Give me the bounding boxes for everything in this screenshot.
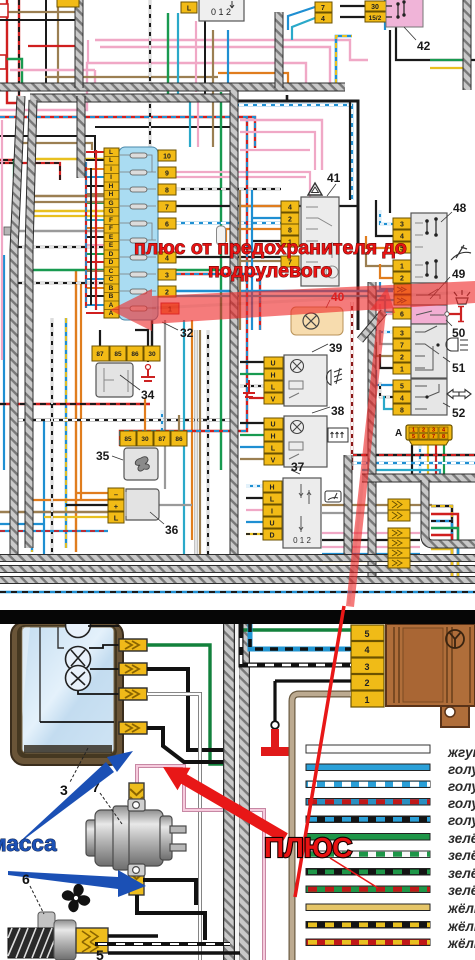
- wire brown horizontal top left: [0, 11, 79, 13]
- harness horizontal bottom run 2: [0, 565, 475, 573]
- wire white from connector 3: [147, 694, 200, 960]
- wire right elbow wire 4: [431, 528, 458, 578]
- wire pink vertical x196: [195, 21, 197, 92]
- svg-text:L: L: [114, 514, 119, 523]
- wire brown horizontal y143: [18, 143, 92, 150]
- svg-text:I: I: [110, 166, 112, 173]
- wire yellow-green stub right: [430, 59, 467, 61]
- wire black wire 34 to ground: [135, 330, 148, 362]
- headlight icon 51: [446, 338, 468, 351]
- wire black wire to pin30: [340, 5, 365, 7]
- wire black to 41-1: [252, 240, 281, 242]
- svg-text:3: 3: [165, 273, 169, 280]
- harness horizontal bottom run 3: [0, 576, 475, 584]
- legend row 4 red-blue: [306, 799, 430, 806]
- wire gray y231 with connector: [4, 227, 104, 235]
- wire yellow pair y216: [33, 215, 104, 217]
- wire fuse pin stub 10: [86, 227, 104, 229]
- svg-text:39: 39: [329, 341, 343, 355]
- svg-text:34: 34: [141, 388, 155, 402]
- svg-text:4: 4: [400, 396, 404, 403]
- wire green horizontal to 38H: [240, 434, 264, 436]
- svg-text:0 1 2: 0 1 2: [293, 536, 311, 545]
- wire red-blue vertical x247: [120, 117, 247, 446]
- label 35: [96, 449, 123, 463]
- svg-text:зелёный: зелёный: [448, 848, 475, 863]
- wire teal vertical x184 mid: [183, 320, 185, 556]
- wire black elbow y95 right: [286, 95, 289, 101]
- wire pink pair from fuse 9: [176, 172, 310, 197]
- wire black vertical x390 top: [389, 30, 391, 213]
- fuse box 32 body: [119, 147, 158, 320]
- label 38: [312, 404, 345, 418]
- headlamp 3 glass: [22, 627, 114, 753]
- light switch 51 body: [411, 324, 447, 378]
- relay block connector brown: [386, 624, 475, 727]
- wire blue vertical x228: [227, 30, 229, 90]
- light switch 51 pins 3 7 2 1: [393, 327, 411, 374]
- legend row 10 solid yellow: [306, 904, 430, 911]
- wire orange elbow 41-8: [226, 229, 281, 242]
- switch 39 pins U H L V: [264, 357, 283, 404]
- label 34: [120, 375, 155, 402]
- wire brown vertical x200 mid: [199, 330, 201, 556]
- wire teal to 52-8: [384, 396, 393, 409]
- wire fuse pin stub 15: [86, 270, 104, 272]
- svg-text:9: 9: [165, 171, 169, 178]
- horn icon red: [449, 307, 464, 322]
- wire pink to 37I: [246, 509, 263, 511]
- svg-text:85: 85: [124, 436, 132, 443]
- svg-text:A: A: [395, 428, 402, 439]
- wire fuse pin stub 6: [86, 193, 104, 195]
- svg-text:2: 2: [422, 428, 425, 434]
- svg-text:E: E: [109, 234, 114, 241]
- label 40: [326, 290, 345, 308]
- harness bundle horizontal main: [0, 83, 345, 92]
- svg-text:7: 7: [432, 434, 435, 440]
- wire black to pin 2 with ground drop: [275, 681, 351, 721]
- headlamp 3 outer frame: [11, 622, 123, 765]
- svg-text:плюс от предохранителя до: плюс от предохранителя до: [134, 237, 407, 259]
- wire blue vertical x44: [43, 420, 45, 556]
- wire black horizontal to 39U: [240, 361, 264, 363]
- label 42: [404, 27, 431, 53]
- wire wire A down4: [435, 445, 437, 478]
- svg-text:голубой: голубой: [448, 813, 475, 828]
- label 52: [443, 403, 466, 420]
- relay 35 body with fan icon: [124, 448, 158, 480]
- inline fuse capsule on green wire: [217, 226, 226, 245]
- svg-text:86: 86: [175, 436, 183, 443]
- relay 42 pins 30 15/2: [365, 1, 386, 22]
- legend labels: [447, 745, 475, 951]
- harness bottom vertical 2: [238, 617, 250, 960]
- wire black dashed to 39L: [240, 385, 264, 387]
- svg-text:D: D: [109, 251, 114, 258]
- white wire between harnesses: [235, 617, 239, 960]
- washer switch 49 pins: [394, 284, 411, 305]
- svg-text:I: I: [271, 509, 273, 516]
- wire red-blue dashed vertical x86: [85, 162, 87, 308]
- fog lamp icon 39: [326, 368, 342, 385]
- wire pink horizontal B: [10, 70, 95, 84]
- svg-text:86: 86: [131, 351, 139, 358]
- label 32: [162, 322, 194, 340]
- wire fuse pin stub 13: [86, 253, 104, 255]
- red callout arrow to fuse pin 1 (wide translucent): [110, 281, 475, 331]
- wire dark-red dashed vertical x352: [351, 302, 353, 470]
- lamp box 40: [291, 307, 343, 335]
- connector A: [395, 425, 452, 445]
- svg-text:C: C: [109, 268, 114, 275]
- wire blue pair from fuse 2b: [176, 296, 393, 312]
- heater icon 38: [328, 428, 348, 442]
- wire red dashed horizontal y163: [0, 163, 60, 180]
- legend row 9 red-green: [306, 886, 430, 893]
- wire blue dashed to 37H: [246, 485, 263, 487]
- wire black dashed vertical x208 mid: [207, 330, 209, 556]
- wire black wire 42 down: [396, 27, 475, 60]
- wire green top-left corner: [0, 59, 22, 84]
- headlamp connector 3: [119, 688, 147, 700]
- harness vertical right x425: [425, 480, 475, 544]
- svg-text:зелёный: зелёный: [448, 831, 475, 846]
- fuse box 32 internal links: [119, 155, 156, 308]
- wiper motor 7 yellow strap: [129, 783, 144, 895]
- red callout arrow up to column switch (wide translucent): [346, 288, 395, 607]
- small yellow stub top edge: [57, 0, 79, 7]
- wire black dash to 52-4: [380, 382, 393, 397]
- label 41: [327, 171, 341, 196]
- wire fuse pin stub 18: [86, 295, 104, 297]
- wire black dashed horizontal y283: [13, 282, 104, 284]
- svg-text:I: I: [110, 174, 112, 181]
- wire red horizontal to 39V: [249, 397, 264, 399]
- svg-text:5: 5: [96, 947, 104, 960]
- wire fuse pin stub 14: [86, 261, 104, 263]
- wire green vertical x221 low: [220, 330, 222, 470]
- legend row 3 white-blue: [306, 781, 430, 788]
- fan symbol 6: [58, 880, 95, 917]
- label 48: [441, 201, 467, 222]
- switch 39 body: [284, 355, 327, 406]
- svg-text:–: –: [114, 490, 118, 499]
- label 36: [150, 512, 179, 537]
- hazard switch 41 body: [301, 197, 339, 286]
- wire blue vertical far left: [3, 255, 5, 470]
- legend row 11 black-yellow: [306, 922, 430, 929]
- wire fuse pin stub 19: [86, 304, 104, 306]
- wire gray vertical x165 mid: [164, 320, 166, 489]
- harness vertical mid-right: [368, 282, 377, 576]
- wire pink horizontal pair A: [0, 63, 306, 110]
- svg-text:H: H: [270, 373, 275, 380]
- hazard triangle icon 41: [308, 183, 322, 195]
- harness diagonal crossing: [360, 312, 384, 340]
- svg-text:38: 38: [331, 404, 345, 418]
- harness horizontal right y478: [362, 474, 475, 483]
- svg-text:B: B: [109, 293, 114, 300]
- svg-text:L: L: [109, 157, 113, 164]
- wire orange vertical x81: [80, 282, 82, 500]
- svg-text:15/2: 15/2: [369, 15, 382, 22]
- wire pink horizontal C: [95, 40, 368, 60]
- wire black vertical x205: [204, 21, 206, 98]
- svg-text:E: E: [109, 242, 114, 249]
- legend row 8 black-green: [306, 869, 430, 876]
- label 3: [60, 748, 88, 798]
- wire pink from fuse 9b: [176, 176, 306, 178]
- wire yellow through connector 7: [322, 560, 420, 562]
- svg-text:H: H: [109, 191, 114, 198]
- svg-text:5: 5: [400, 384, 404, 391]
- wire green vertical x221: [220, 92, 222, 330]
- wire blue horizontal y524: [0, 523, 44, 525]
- bottom right pin 2: [351, 675, 384, 691]
- wire black to 37L: [246, 497, 263, 499]
- wire pink through connector 3: [322, 532, 420, 534]
- wire fuse pin stub 5: [86, 185, 104, 187]
- wire pink horizontal D: [100, 47, 330, 84]
- svg-text:35: 35: [96, 449, 110, 463]
- wire brown wire to 35-86: [178, 415, 180, 431]
- label 37: [291, 460, 305, 474]
- wire gray through connector 2: [322, 478, 425, 513]
- wire wire A down5: [443, 445, 445, 478]
- washer pump 5 assembly: [8, 912, 108, 960]
- wire fuse pin stub 2: [86, 159, 104, 161]
- svg-text:0 1 2: 0 1 2: [211, 7, 231, 17]
- svg-text:4: 4: [364, 645, 369, 655]
- svg-text:3: 3: [364, 662, 369, 672]
- svg-text:V: V: [271, 458, 276, 465]
- hazard switch 41 pins 4 2 8 1 7: [281, 201, 299, 267]
- relay 34 pins 87 85 86 30: [92, 346, 160, 361]
- legend row 1 harness: [306, 745, 430, 753]
- svg-text:3: 3: [60, 782, 68, 798]
- wiper motor 7 body: [86, 799, 186, 876]
- wire orange to 48-5: [366, 236, 393, 248]
- label 50: [446, 320, 466, 340]
- bottom right pin 5: [351, 625, 384, 641]
- turn switch 52 pins 5 4 8: [393, 380, 411, 415]
- bottom right pin 1: [351, 691, 384, 707]
- svg-text:2: 2: [364, 678, 369, 688]
- svg-text:L: L: [271, 446, 276, 453]
- svg-text:D: D: [269, 533, 274, 540]
- fuse box 32 left pin column: [104, 148, 119, 318]
- wire black-white dash from fuse 8: [176, 188, 281, 190]
- wire black from fuse 7: [176, 205, 358, 207]
- turn arrows icon 52: [447, 390, 471, 399]
- wire blue through connector 6: [322, 553, 420, 555]
- wire black vertical x91: [90, 168, 92, 305]
- wire blue-red dashed y531: [0, 530, 108, 532]
- svg-text:30: 30: [148, 351, 156, 358]
- label 39: [312, 341, 343, 355]
- wire orange to 48-2: [380, 264, 393, 278]
- svg-text:жёлтый: жёлтый: [447, 901, 475, 916]
- ground terminal circle: [271, 721, 279, 729]
- svg-text:A: A: [109, 302, 114, 309]
- wire blue-yellow dashed vertical x66: [65, 318, 67, 548]
- svg-text:+: +: [114, 502, 119, 511]
- inline connector stack lower: [388, 528, 410, 568]
- wire brown through connector 1: [322, 504, 432, 506]
- wire black horizontal y127: [95, 126, 230, 128]
- horn switch 50 body pink: [411, 305, 449, 324]
- svg-text:1: 1: [412, 428, 415, 434]
- headlamp connector 2: [119, 663, 147, 675]
- wire black-red dashed right y455: [352, 454, 475, 456]
- wire red-black dashed vertical left: [0, 0, 19, 160]
- wire red-black dashed horizontal y404: [0, 403, 150, 406]
- wire blue to 41-2: [252, 217, 281, 219]
- wire brown horizontal to 38V: [240, 458, 264, 460]
- wire black dashed horizontal y247: [13, 246, 104, 248]
- legend row 7 white-green: [306, 851, 430, 858]
- wire right elbow wire 2: [431, 514, 458, 578]
- svg-text:D: D: [109, 259, 114, 266]
- motor 36 body: [126, 489, 159, 520]
- wire yellow pair y211: [33, 210, 112, 212]
- wire pink vertical x88 top: [87, 40, 89, 63]
- wire black vertical x350 top: [349, 101, 351, 200]
- wire green short top-left: [13, 160, 15, 178]
- column switch 48 pins 3 4 5 1 2: [393, 218, 411, 283]
- svg-text:8: 8: [442, 434, 445, 440]
- wire fuse pin stub 4: [86, 176, 104, 178]
- wiper icon 37: [325, 491, 341, 502]
- wire blue dashed right y463: [352, 462, 475, 464]
- wire brown vertical x58: [57, 0, 59, 84]
- wire brown to 51-2: [376, 342, 393, 356]
- headlamp connector 4: [119, 722, 147, 734]
- wire black-white dashed vertical x52: [51, 318, 53, 556]
- harness vertical mid-right-2: [344, 455, 353, 556]
- wire fuse pin stub 1: [86, 151, 104, 153]
- wire fuse pin stub 9: [86, 219, 104, 221]
- wire pink vertical x198 mid: [197, 98, 199, 147]
- svg-text:жёлтый: жёлтый: [447, 919, 475, 934]
- wire green from connector 1: [147, 645, 224, 764]
- svg-text:30: 30: [141, 436, 149, 443]
- svg-text:5: 5: [364, 629, 369, 639]
- wire black horizontal top left: [0, 19, 79, 21]
- wire black horizontal to 38U: [240, 422, 264, 424]
- svg-text:зелёный: зелёный: [448, 883, 475, 898]
- legend panel frame: [292, 694, 351, 960]
- switch box top-left with 0 1 2: [181, 0, 244, 21]
- svg-text:B: B: [109, 285, 114, 292]
- wire pink through connector 5: [322, 546, 420, 548]
- relay 35 pins 85 30 87 86: [120, 431, 187, 446]
- wire fuse pin stub 11: [86, 236, 104, 238]
- switch 38 pins U H L V: [264, 418, 283, 465]
- wire pink to wiper motor: [137, 766, 264, 960]
- svg-text:H: H: [109, 183, 114, 190]
- inline connector pair upper: [388, 499, 410, 521]
- svg-text:87: 87: [158, 436, 166, 443]
- wire green vertical x168: [167, 13, 169, 95]
- wire black horizontal y101 right: [230, 101, 358, 330]
- wire ground stub 39: [243, 380, 255, 397]
- svg-text:7: 7: [400, 343, 404, 350]
- svg-text:7: 7: [165, 205, 169, 212]
- pin L top-left switch: [181, 2, 197, 13]
- wire brown pair y202: [33, 201, 104, 203]
- svg-text:H: H: [270, 434, 275, 441]
- svg-text:52: 52: [452, 406, 466, 420]
- wire black dashed vertical x150: [149, 0, 151, 147]
- svg-text:C: C: [109, 276, 114, 283]
- legend row 2 solid blue: [306, 764, 430, 771]
- wire blue dashed from fuse 6: [176, 222, 281, 224]
- switch 37 pins H L I U D: [263, 481, 282, 540]
- horn switch 50 pin 6: [393, 308, 411, 319]
- harness vertical left outer: [14, 96, 21, 560]
- svg-text:2: 2: [288, 217, 292, 224]
- wire pink loop right 2: [240, 132, 315, 170]
- svg-text:жгут: жгут: [447, 745, 475, 760]
- svg-text:36: 36: [165, 523, 179, 537]
- svg-text:1: 1: [400, 264, 404, 271]
- pins 7 4 top: [315, 2, 332, 23]
- wire red horizontal top left: [28, 45, 79, 47]
- svg-text:48: 48: [453, 201, 467, 215]
- harness horizontal bottom run 1: [0, 554, 475, 562]
- wire blue-red dashed horizontal y117: [0, 117, 255, 148]
- label 49: [430, 267, 466, 299]
- wire fuse pin stub 12: [86, 244, 104, 246]
- wire blue vertical x252 mid: [251, 190, 253, 330]
- wire teal vertical x190 mid: [189, 98, 191, 147]
- wire fuse pin stub 17: [86, 287, 104, 289]
- ground symbol red: [261, 729, 289, 756]
- wire orange wire to 35: [144, 398, 146, 431]
- red thin line to legend row 9: [330, 858, 378, 888]
- wire orange to 41-4: [240, 205, 281, 207]
- wire pink loop right: [240, 120, 322, 170]
- svg-text:F: F: [109, 217, 113, 224]
- wire green horizontal to 39H: [240, 373, 264, 375]
- harness vertical top-left: [75, 0, 84, 88]
- fuse box 32 fuses: [130, 153, 147, 311]
- label 7: [92, 779, 122, 824]
- wire right elbow wire 1: [431, 506, 452, 578]
- svg-text:L: L: [270, 497, 275, 504]
- svg-text:1: 1: [364, 695, 369, 705]
- svg-text:5: 5: [412, 434, 415, 440]
- wire wire A down3: [427, 445, 429, 478]
- svg-text:масса: масса: [0, 831, 57, 856]
- svg-text:30: 30: [371, 4, 379, 11]
- wire black to 51-1: [380, 354, 393, 368]
- svg-text:4: 4: [321, 16, 325, 23]
- wire blue vertical x385 top: [384, 0, 386, 30]
- svg-text:3: 3: [400, 222, 404, 229]
- svg-text:6: 6: [22, 871, 30, 887]
- wire black to 48-4: [376, 200, 393, 236]
- svg-text:8: 8: [400, 408, 404, 415]
- wire fuse pin stub 7: [86, 202, 104, 204]
- svg-text:L: L: [271, 385, 276, 392]
- blue arrow to headlamp massa: [107, 751, 133, 772]
- wire right elbow wire 8: [431, 556, 458, 578]
- wire black from motor down: [137, 895, 205, 940]
- svg-text:G: G: [108, 200, 113, 207]
